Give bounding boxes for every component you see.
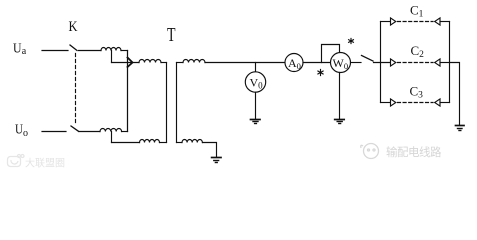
svg-text:C2: C2 — [411, 43, 425, 60]
wire capacitor bank left bus — [380, 22, 382, 103]
watermark text bottom-left — [25, 157, 65, 170]
dashed gang link of switch K — [75, 54, 77, 126]
inductor coil F (T secondary upper) — [183, 60, 205, 63]
capacitor C1 label — [410, 2, 424, 19]
wire tap to coil E — [112, 142, 140, 144]
svg-text:U: U — [15, 122, 23, 137]
wire tap from coil A down — [111, 51, 113, 63]
wire coil F to ammeter A0 — [205, 62, 285, 64]
inductor coil D (variac lower winding) — [100, 129, 122, 132]
asterisk W0 bottom left — [318, 70, 323, 76]
ground W0 — [335, 120, 345, 124]
wire U0 to switch K lower — [42, 131, 66, 133]
ground V0 — [251, 120, 261, 124]
switch K lower blade — [71, 126, 79, 131]
wire coil A to right corner — [121, 50, 128, 52]
watermark text bottom-right — [386, 145, 442, 159]
switch to capacitor bank blade — [362, 56, 374, 62]
wire T primary right vertical — [166, 63, 168, 143]
wire secondary vertical to coil G — [177, 142, 183, 144]
switch K label — [69, 19, 78, 35]
ground secondary — [212, 158, 221, 163]
wire coil E to primary vertical — [160, 142, 167, 144]
wire switch to C2 row — [374, 62, 391, 64]
svg-text:o: o — [23, 128, 28, 139]
wire W0 to ground — [339, 73, 341, 119]
watermark logo bottom-left — [8, 155, 25, 167]
inductor coil E (T primary lower) — [140, 140, 160, 143]
transformer T label — [167, 24, 176, 46]
svg-text:输配电线路: 输配电线路 — [386, 145, 442, 159]
wire V0 to ground — [255, 92, 257, 119]
wire vertical variac right side with wiper chevron — [128, 51, 133, 132]
switch K upper blade — [70, 45, 77, 51]
wire coil G to ground — [203, 143, 217, 157]
capacitor C2 label — [411, 43, 425, 60]
inductor coil A (variac upper winding) — [101, 48, 121, 51]
wire tap to coil B — [112, 62, 140, 64]
wire secondary vertical to coil F — [177, 62, 184, 64]
watermark logo bottom-right — [361, 144, 379, 159]
capacitor C3 label — [410, 84, 424, 101]
svg-text:C3: C3 — [410, 84, 424, 101]
svg-text:U: U — [13, 42, 22, 57]
wire K upper to coil A — [79, 50, 102, 52]
wattmeter W0 — [331, 53, 351, 73]
wire Ua to switch K upper — [42, 50, 68, 52]
svg-text:C1: C1 — [410, 2, 424, 19]
svg-text:K: K — [69, 19, 78, 35]
ammeter A0 — [285, 54, 303, 72]
capacitor C3 row: stub, plug contacts, dashed link — [381, 99, 450, 106]
inductor coil G (T secondary lower) — [182, 140, 202, 143]
wire A0 to W0 — [303, 62, 331, 64]
svg-text:T: T — [167, 24, 176, 46]
inductor coil B (T primary upper) — [139, 60, 161, 63]
wire capacitor bank right bus — [449, 22, 451, 103]
wattmeter W0 current-coil loop — [322, 45, 340, 63]
ground capacitor bank — [456, 126, 465, 131]
wire K lower to coil D — [79, 131, 100, 133]
wire coil B to primary vertical — [161, 62, 167, 64]
node Ua label — [13, 42, 27, 58]
capacitor C2 row: plug contacts, dashed link — [391, 59, 450, 66]
wire T secondary left vertical — [176, 63, 178, 143]
wire right bus to ground — [450, 63, 460, 126]
wire coil D to variac vertical — [122, 131, 128, 133]
node U0 label — [15, 122, 28, 139]
wire W0 to switch — [351, 62, 362, 64]
wire tap from coil D down — [111, 132, 113, 143]
svg-text:大联盟圈: 大联盟圈 — [25, 157, 65, 170]
capacitor C1 row: stub, plug contacts, dashed link — [381, 18, 450, 25]
asterisk W0 top right — [349, 39, 354, 44]
svg-text:a: a — [22, 46, 27, 57]
voltmeter V0 — [245, 63, 265, 93]
